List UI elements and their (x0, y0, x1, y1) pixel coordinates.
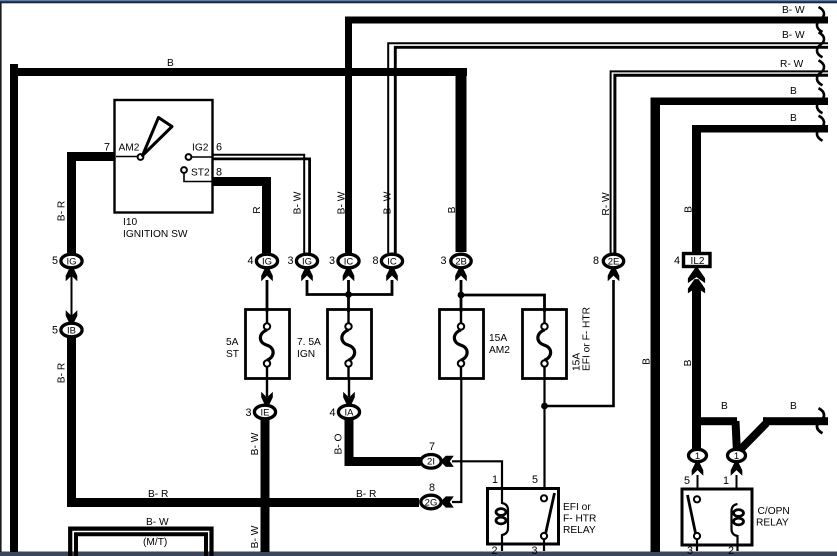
svg-text:IB: IB (67, 325, 76, 336)
svg-text:3: 3 (532, 545, 538, 556)
wire break squiggle B fourth (817, 116, 824, 141)
arrow into node 2G (442, 496, 454, 507)
fuse 15A AM2 (440, 310, 511, 379)
svg-text:B- W: B- W (782, 5, 805, 16)
svg-text:4: 4 (674, 255, 680, 267)
wire B from C/OPN relay oval to right edge (739, 401, 828, 451)
wire R-W double line to node 2E (601, 59, 828, 253)
wire from IGN fuse to node IA (343, 378, 355, 405)
svg-text:R- W: R- W (601, 192, 612, 216)
svg-text:AM2: AM2 (489, 345, 510, 356)
svg-text:8: 8 (216, 167, 222, 179)
wire B to connector IL2 (684, 113, 829, 253)
svg-text:IG: IG (302, 256, 312, 267)
svg-text:IL2: IL2 (691, 256, 705, 267)
svg-text:2: 2 (492, 545, 498, 556)
svg-text:I10: I10 (123, 217, 137, 228)
arrow into node 2B + wire split to AM2 fuse and EFI fuse (455, 268, 544, 312)
svg-text:8: 8 (372, 255, 378, 267)
svg-text:B: B (790, 86, 797, 97)
wire B-W top to node IC pin3 (337, 5, 829, 254)
svg-text:B- W: B- W (250, 525, 261, 548)
svg-text:B- W: B- W (146, 517, 169, 528)
svg-text:5: 5 (532, 474, 538, 486)
arrow into node IC8 + wire to IGN fuse junction (349, 268, 398, 295)
svg-text:RELAY: RELAY (563, 525, 596, 536)
svg-text:ST2: ST2 (191, 168, 210, 179)
svg-text:3: 3 (329, 255, 335, 267)
arrow into node 2E + wire down to EFI relay net (545, 268, 620, 406)
svg-text:8: 8 (429, 482, 435, 494)
relay EFI or F-HTR (488, 474, 597, 556)
wire break squiggle B-W second (817, 32, 824, 57)
svg-text:B: B (790, 401, 797, 412)
svg-text:2G: 2G (425, 497, 438, 508)
wire break squiggle B bottom right (817, 408, 824, 433)
svg-text:B: B (447, 206, 458, 213)
wire B main: left vertical + top horizontal, label B (10, 58, 467, 552)
connector oval IG pin5 (52, 254, 82, 268)
svg-text:3: 3 (245, 407, 251, 419)
svg-text:7: 7 (429, 441, 435, 453)
relay C/OPN (682, 489, 790, 556)
svg-text:2B: 2B (455, 256, 467, 267)
svg-text:RELAY: RELAY (756, 518, 789, 529)
connector oval IG pin4 (247, 254, 277, 268)
connector oval IC pin3 (329, 254, 359, 268)
ignition switch I10 (104, 100, 222, 240)
svg-text:5: 5 (52, 325, 58, 337)
arrow into node IC3 + wire down to IGN fuse (343, 268, 355, 312)
junction dot at AM2 fuse feed (458, 292, 465, 299)
svg-text:B- R: B- R (57, 201, 68, 221)
svg-text:B- R: B- R (356, 489, 376, 500)
window chrome bottom bar (0, 551, 837, 556)
svg-text:B- W: B- W (782, 30, 805, 41)
wire from EFI fuse down to relay pin 5 (543, 378, 545, 495)
connector oval IA pin4 (329, 405, 359, 419)
svg-text:B- R: B- R (57, 363, 68, 383)
svg-text:5: 5 (52, 255, 58, 267)
svg-text:EFI or: EFI or (563, 502, 591, 513)
svg-text:1: 1 (723, 475, 729, 487)
svg-text:3: 3 (687, 545, 693, 556)
connector oval 1 (right, C/OPN) (728, 449, 746, 462)
fuse 7.5A IGN (297, 310, 372, 379)
svg-text:5A: 5A (226, 337, 239, 348)
wire B-W from node IE down (250, 419, 270, 552)
connector oval 2E pin8 (593, 254, 624, 268)
svg-text:2E: 2E (608, 256, 620, 267)
svg-text:6: 6 (216, 142, 222, 154)
svg-text:EFI or F- HTR: EFI or F- HTR (582, 307, 593, 371)
connector oval IC pin8 (372, 254, 402, 268)
svg-text:IA: IA (345, 407, 355, 418)
svg-text:IC: IC (344, 256, 354, 267)
svg-text:B- W: B- W (383, 191, 394, 214)
wire break squiggle B third (817, 88, 824, 113)
wire B below connector IL2 to C/OPN relay (683, 266, 737, 450)
svg-text:B: B (721, 401, 728, 412)
svg-text:(M/T): (M/T) (143, 537, 167, 548)
svg-text:2: 2 (728, 545, 734, 556)
connector oval 2G pin8 (421, 482, 441, 509)
svg-text:15A: 15A (489, 333, 507, 344)
connector oval IG pin3 (287, 254, 317, 268)
svg-text:7: 7 (104, 142, 110, 154)
svg-text:IGN: IGN (297, 349, 315, 360)
fuse 5A ST (226, 310, 290, 379)
svg-text:R- W: R- W (780, 59, 804, 70)
wire B-R from node IG pin5 up to ignition switch AM2 (57, 152, 116, 253)
svg-text:IG2: IG2 (192, 143, 209, 154)
svg-text:4: 4 (247, 255, 253, 267)
svg-text:B- W: B- W (337, 191, 348, 214)
svg-text:ST: ST (226, 349, 239, 360)
wire B right vertical bus (642, 86, 829, 552)
wire break squiggle R-W (817, 60, 824, 85)
junction dot below EFI fuse (541, 403, 548, 410)
svg-text:AM2: AM2 (119, 143, 140, 154)
(M/T) wire loop bottom left (70, 517, 211, 556)
connector rect IL2 pin4 (674, 254, 710, 268)
wire from AM2 fuse down to node 2G arrow (452, 378, 461, 502)
svg-text:IGNITION SW: IGNITION SW (123, 229, 188, 240)
svg-text:1: 1 (734, 451, 739, 462)
svg-text:IE: IE (261, 407, 270, 418)
svg-text:B: B (167, 58, 174, 69)
svg-text:IG: IG (262, 256, 272, 267)
page left border (0, 3, 2, 552)
wire R from ignition ST2 to node IG pin4 (212, 177, 271, 253)
svg-text:3: 3 (440, 255, 446, 267)
connector oval 1 (left, C/OPN) (689, 449, 707, 462)
svg-text:3: 3 (287, 255, 293, 267)
connector oval 2I pin7 (421, 441, 441, 468)
connector oval IE pin3 (245, 405, 275, 419)
window chrome top bar (0, 0, 837, 4)
svg-text:5: 5 (684, 475, 690, 487)
svg-text:8: 8 (593, 255, 599, 267)
svg-text:1: 1 (492, 474, 498, 486)
svg-text:B- W: B- W (293, 191, 304, 214)
wire from ST fuse to node IE (261, 378, 273, 405)
arrow into node IG4 + wire to fuse ST (261, 268, 273, 312)
svg-text:B: B (684, 206, 695, 213)
svg-text:R: R (252, 206, 263, 213)
svg-text:1: 1 (695, 451, 700, 462)
connector oval 2B pin3 (440, 254, 471, 268)
double chevrons under IL2 (0, 0, 1, 1)
wire from node 2I arrow to EFI relay pin 1 (442, 456, 502, 490)
wire B-W double line from ignition IG2 to node IG pin3 (212, 155, 310, 253)
wire B-W double line to node IC pin8 (383, 30, 829, 253)
svg-text:7. 5A: 7. 5A (297, 337, 321, 348)
arrows under C/OPN ovals + pin wires (684, 462, 742, 504)
wire link node IG to node IB with arrows (66, 268, 78, 324)
svg-text:B: B (790, 113, 797, 124)
svg-text:B- R: B- R (148, 489, 168, 500)
svg-text:B- O: B- O (334, 433, 345, 454)
wire B-O from node IA to node 2I (334, 419, 421, 466)
fuse 15A EFI or F-HTR (523, 307, 593, 378)
svg-text:F- HTR: F- HTR (563, 514, 596, 525)
svg-text:B: B (642, 358, 653, 365)
svg-text:B: B (683, 359, 694, 366)
svg-text:C/OPN: C/OPN (758, 506, 790, 517)
wire B vertical to node 2B (447, 68, 467, 252)
wire break squiggle B-W top (817, 7, 824, 32)
svg-text:IG: IG (66, 256, 76, 267)
wire B-R from node IB down and right to node 2G (57, 337, 420, 507)
svg-text:2I: 2I (427, 457, 435, 468)
svg-text:4: 4 (329, 407, 335, 419)
junction dot at IGN fuse feed (345, 291, 352, 298)
svg-text:IC: IC (387, 256, 397, 267)
arrow into node IG3 + wire to IGN fuse junction (301, 268, 348, 295)
connector oval IB pin5 (52, 323, 82, 337)
svg-text:B- W: B- W (250, 432, 261, 455)
